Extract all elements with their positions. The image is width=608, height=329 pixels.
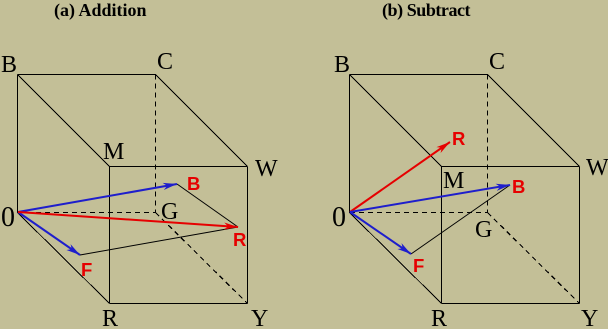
parallelogram side B-R (a) [177,184,238,227]
svg-text:C: C [157,49,173,75]
cube (a) solid edges [18,75,248,304]
svg-text:0: 0 [332,202,346,233]
edge C-W (a) [156,75,248,167]
edge M-R (b) [441,167,443,304]
svg-text:B: B [334,52,350,78]
svg-text:M: M [103,139,124,165]
edge W-Y (a) [247,167,249,304]
vector R (b) red arrow [350,142,450,212]
svg-text:R: R [233,229,246,250]
edge C-G dashed (b) [487,75,489,213]
svg-text:0: 0 [1,202,15,233]
edge M-W (a) [110,166,248,168]
edge 0-R (b) [350,213,442,304]
edge R-Y (b) [442,303,580,305]
svg-text:G: G [161,199,178,225]
svg-text:R: R [102,306,118,329]
cube (b) solid edges [350,75,580,304]
svg-text:W: W [255,156,278,182]
edge G-Y dashed (b) [488,213,580,304]
edge B-M (b) [350,75,442,167]
edge W-Y (b) [579,167,581,304]
svg-text:B: B [1,52,17,78]
svg-text:Y: Y [251,306,268,329]
edge C-W (b) [488,75,580,167]
svg-text:(a) Addition: (a) Addition [54,0,147,21]
vector R (a) red arrow [18,212,238,227]
cube (b) hidden dashed edges [350,75,580,304]
svg-text:G: G [475,217,492,243]
vector F (a) blue arrow [18,212,80,255]
svg-text:F: F [81,259,92,280]
edge B-C (a) [18,74,156,76]
svg-text:M: M [443,168,464,194]
svg-text:Y: Y [581,306,598,329]
edge 0-G dashed (b) [350,212,487,214]
edge R-Y (a) [110,303,248,305]
vector B (a) blue arrow [18,184,177,212]
svg-text:W: W [586,155,608,181]
parallelogram side F-R (a) [80,227,238,255]
vector F (b) blue arrow [350,212,411,254]
edge M-R (a) [109,167,111,304]
svg-text:F: F [413,255,424,276]
svg-text:R: R [431,306,447,329]
svg-text:C: C [489,49,505,75]
svg-text:R: R [452,128,465,149]
svg-text:B: B [512,176,525,197]
edge B-0 (b) [349,75,351,213]
svg-text:(b) Subtract: (b) Subtract [382,0,471,21]
edge 0-G dashed (a) [18,212,155,214]
svg-text:B: B [187,173,200,194]
edge B-0 (a) [17,75,19,213]
edge G-Y dashed (a) [156,213,248,304]
vector B (b) blue arrow [350,185,510,212]
difference line F-B (b) [411,185,510,254]
edge B-C (b) [350,74,488,76]
edge C-G dashed (a) [155,75,157,213]
edge M-W (b) [442,166,580,168]
edge B-M (a) [18,75,110,167]
edge 0-R (a) [18,213,110,304]
cube (a) hidden dashed edges [18,75,248,304]
